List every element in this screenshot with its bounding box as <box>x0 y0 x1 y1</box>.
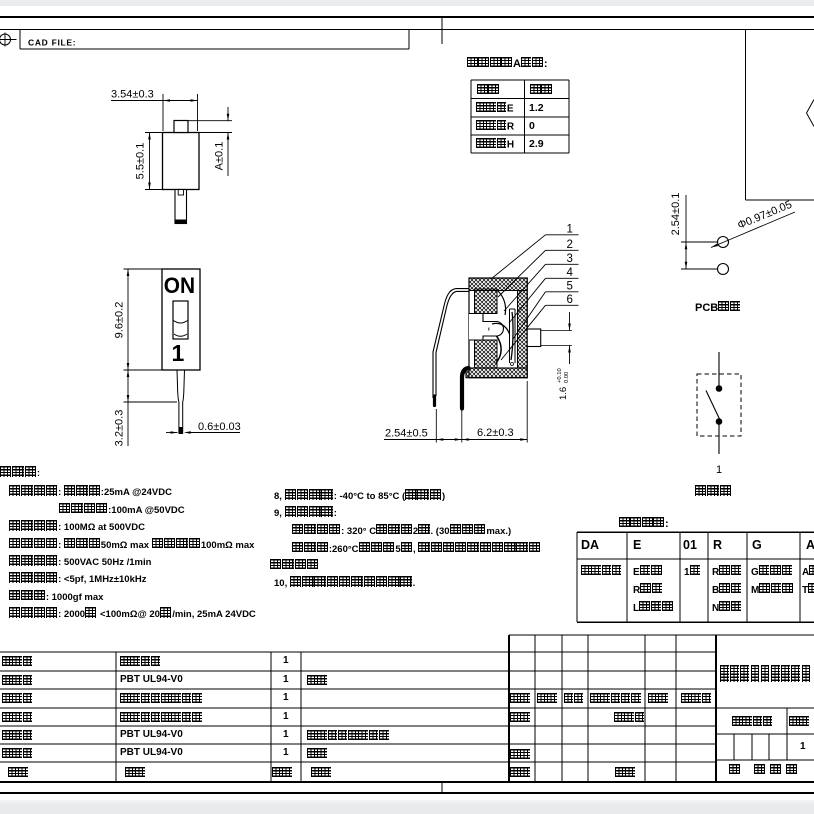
svg-text:0.00: 0.00 <box>564 372 570 383</box>
svg-text:5.5±0.1: 5.5±0.1 <box>135 143 147 180</box>
svg-text:Φ0.97±0.05: Φ0.97±0.05 <box>736 199 794 232</box>
svg-text:6: 6 <box>567 294 573 306</box>
svg-text:9.6±0.2: 9.6±0.2 <box>114 302 126 339</box>
svg-text:CAD FILE:: CAD FILE: <box>28 38 76 48</box>
svg-text:+0.10: +0.10 <box>557 368 563 383</box>
svg-text:3: 3 <box>567 253 573 265</box>
svg-text:5: 5 <box>567 281 573 293</box>
svg-text:ON: ON <box>164 274 195 299</box>
svg-text:2.54±0.1: 2.54±0.1 <box>670 193 682 236</box>
svg-text:A±0.1: A±0.1 <box>214 142 226 171</box>
svg-text:4: 4 <box>567 267 574 279</box>
svg-text:3.2±0.3: 3.2±0.3 <box>114 410 126 447</box>
svg-text:1: 1 <box>716 464 722 476</box>
svg-text:3.54±0.3: 3.54±0.3 <box>111 89 154 101</box>
svg-text:1: 1 <box>172 340 185 366</box>
svg-text:1: 1 <box>567 224 573 236</box>
svg-text:6.2±0.3: 6.2±0.3 <box>477 427 514 439</box>
svg-text:2.54±0.5: 2.54±0.5 <box>385 428 428 440</box>
svg-text:0.6±0.03: 0.6±0.03 <box>198 421 241 433</box>
svg-text:2: 2 <box>567 239 573 251</box>
svg-text:1.6: 1.6 <box>558 387 569 400</box>
